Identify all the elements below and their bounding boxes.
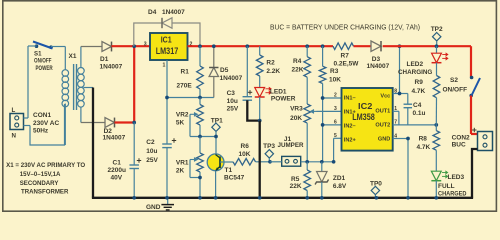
wire: [24, 117, 29, 119]
svg-text:N: N: [12, 133, 17, 140]
svg-text:R5: R5: [291, 176, 300, 183]
svg-text:LED2: LED2: [407, 61, 424, 68]
wire OUT2: [393, 124, 437, 126]
svg-text:1N4007: 1N4007: [103, 134, 126, 141]
svg-text:D1: D1: [100, 56, 109, 63]
node: [198, 135, 202, 139]
svg-text:1: 1: [163, 63, 166, 69]
svg-text:D3: D3: [372, 56, 381, 63]
svg-text:S1: S1: [34, 50, 42, 57]
wire to pin5: [333, 138, 335, 162]
diode D5: [213, 46, 215, 67]
svg-text:IC1: IC1: [161, 35, 172, 45]
svg-text:2: 2: [334, 93, 337, 99]
svg-text:BC547: BC547: [224, 175, 245, 182]
wire center tap: [84, 87, 94, 89]
node: [332, 160, 336, 164]
wire ADJ: [166, 60, 168, 144]
wire: [470, 96, 472, 135]
svg-text:0.1u: 0.1u: [413, 110, 426, 117]
zener ZD1: [321, 162, 323, 172]
node: [198, 176, 202, 180]
node: [321, 44, 325, 48]
wire black to ground: [259, 121, 261, 198]
node: [214, 196, 218, 200]
svg-text:JUMPER: JUMPER: [278, 142, 304, 149]
svg-text:SECONDARY: SECONDARY: [20, 180, 59, 187]
node: [212, 44, 216, 48]
wire GND pin4: [393, 138, 408, 140]
wire: [190, 136, 216, 138]
svg-text:230V AC: 230V AC: [33, 120, 59, 127]
svg-text:BUC: BUC: [452, 142, 466, 149]
svg-text:R6: R6: [241, 143, 250, 150]
svg-text:5K: 5K: [176, 120, 185, 127]
connector CON1: [10, 114, 24, 130]
wire: [323, 124, 342, 126]
resistor R5: [306, 162, 308, 170]
wire Vcc: [393, 93, 400, 95]
svg-text:CON2: CON2: [452, 134, 470, 141]
node: [268, 160, 272, 164]
node: [321, 123, 325, 127]
node: [198, 44, 202, 48]
node: [434, 123, 438, 127]
capacitor C3: [246, 46, 248, 96]
diode D2: [105, 118, 115, 128]
svg-text:C3: C3: [227, 90, 236, 97]
svg-text:CHARGED: CHARGED: [438, 190, 467, 197]
svg-text:C2: C2: [146, 139, 155, 146]
svg-text:6.8V: 6.8V: [333, 183, 347, 190]
node: [375, 196, 379, 200]
node: [406, 196, 410, 200]
svg-text:D4: D4: [148, 9, 157, 16]
svg-text:C4: C4: [413, 102, 422, 109]
svg-text:1N4007: 1N4007: [100, 64, 123, 71]
node: [258, 196, 262, 200]
svg-text:6: 6: [334, 120, 337, 126]
svg-text:22K: 22K: [290, 183, 302, 190]
wire: [28, 45, 37, 47]
LED LED3: [435, 150, 437, 171]
wire: [133, 46, 135, 122]
svg-text:C1: C1: [113, 160, 122, 167]
potentiometer VR1: [199, 137, 201, 154]
wire: [112, 45, 151, 47]
svg-text:L: L: [12, 107, 16, 114]
svg-text:LED3: LED3: [448, 174, 465, 181]
jumper J1: [282, 156, 301, 166]
svg-text:X1: X1: [69, 53, 77, 60]
svg-text:BUC = BATTERY UNDER CHARGING (: BUC = BATTERY UNDER CHARGING (12V, 7Ah): [270, 23, 420, 32]
svg-text:5: 5: [334, 133, 337, 139]
wire: [51, 46, 65, 48]
wire: [24, 125, 31, 127]
ground rail: [92, 197, 473, 199]
svg-text:15V–0–15V,1A: 15V–0–15V,1A: [20, 171, 61, 178]
svg-text:2.2K: 2.2K: [266, 68, 280, 75]
wire: [472, 149, 478, 198]
node: [305, 196, 309, 200]
svg-text:IC2: IC2: [358, 101, 373, 111]
svg-text:VR3: VR3: [290, 106, 303, 113]
svg-text:FULL: FULL: [438, 183, 455, 190]
resistor R2: [259, 46, 261, 55]
wire: [80, 47, 82, 68]
capacitor C2: [162, 143, 172, 145]
svg-text:IN2+: IN2+: [344, 138, 357, 144]
connector CON2: [478, 132, 493, 151]
svg-text:R8: R8: [419, 135, 428, 142]
switch S1: [35, 44, 39, 48]
switch S2: [470, 76, 474, 80]
resistor R4: [306, 46, 308, 57]
node: [406, 137, 410, 141]
svg-text:S2: S2: [450, 77, 458, 84]
wire: [470, 46, 472, 77]
node: [434, 196, 438, 200]
svg-text:10u: 10u: [227, 98, 238, 105]
capacitor C1: [133, 123, 135, 166]
svg-text:CON1: CON1: [33, 112, 51, 119]
svg-text:270E: 270E: [177, 83, 193, 90]
svg-text:2K: 2K: [176, 167, 185, 174]
svg-text:R1: R1: [181, 69, 190, 76]
svg-text:T1: T1: [225, 167, 233, 174]
node: [398, 92, 402, 96]
op-amp U2 IC2 LM358: [342, 88, 393, 151]
svg-text:10K: 10K: [329, 76, 341, 83]
wire: [115, 121, 135, 123]
svg-text:1N4007: 1N4007: [162, 9, 185, 16]
node: [435, 44, 439, 48]
svg-text:3: 3: [334, 106, 337, 112]
svg-text:OUT2: OUT2: [375, 123, 390, 129]
svg-text:Vcc: Vcc: [380, 94, 390, 100]
capacitor C4: [404, 103, 413, 105]
node: [398, 44, 402, 48]
node: [214, 135, 218, 139]
svg-text:40V: 40V: [111, 175, 123, 182]
svg-text:4.7K: 4.7K: [417, 144, 431, 151]
resistor R8: [435, 125, 437, 131]
node: [132, 121, 136, 125]
svg-text:R2: R2: [266, 59, 275, 66]
transistor T1 BC547: [207, 154, 224, 171]
svg-text:2200u: 2200u: [108, 167, 126, 174]
svg-text:10u: 10u: [146, 148, 157, 155]
svg-text:LED1: LED1: [270, 88, 287, 95]
node: [320, 196, 324, 200]
resistor R7: [333, 43, 354, 50]
svg-text:TRANSFORMER: TRANSFORMER: [21, 188, 69, 195]
diode D3: [371, 41, 381, 51]
potentiometer VR2: [199, 98, 201, 105]
svg-text:ZD1: ZD1: [333, 175, 346, 182]
svg-text:OUT1: OUT1: [375, 109, 390, 115]
svg-text:POWER: POWER: [36, 65, 54, 72]
svg-text:X1 = 230V AC PRIMARY TO: X1 = 230V AC PRIMARY TO: [6, 162, 85, 169]
resistor R6: [233, 159, 256, 166]
wire: [383, 45, 471, 47]
potentiometer VR3: [304, 104, 311, 123]
node: [198, 96, 202, 100]
node: [245, 44, 249, 48]
wire output rail: [188, 45, 334, 47]
svg-text:POWER: POWER: [271, 96, 296, 103]
node: [320, 160, 324, 164]
svg-text:3: 3: [144, 41, 147, 47]
node: [305, 160, 309, 164]
svg-text:1N4007: 1N4007: [220, 75, 243, 82]
svg-text:R7: R7: [341, 52, 350, 59]
node: [165, 96, 169, 100]
svg-text:R9: R9: [415, 79, 424, 86]
node: [132, 196, 136, 200]
svg-text:ON/OFF: ON/OFF: [443, 86, 468, 93]
svg-text:20K: 20K: [290, 115, 302, 122]
svg-text:R4: R4: [293, 58, 302, 65]
svg-text:CHARGING: CHARGING: [398, 69, 432, 76]
svg-text:1N4007: 1N4007: [367, 63, 390, 70]
resistor R3: [322, 46, 324, 66]
wire secondary bottom: [80, 107, 82, 123]
regulator IC1 LM317: [150, 33, 188, 60]
wire OUT1: [393, 110, 399, 112]
svg-text:25V: 25V: [227, 106, 239, 113]
diode D4: [134, 23, 162, 46]
svg-text:IN1+: IN1+: [344, 110, 357, 116]
node: [165, 196, 169, 200]
svg-text:25V: 25V: [146, 157, 158, 164]
svg-text:10K: 10K: [239, 151, 251, 158]
svg-text:VR1: VR1: [176, 159, 189, 166]
wire: [301, 161, 334, 163]
svg-text:50Hz: 50Hz: [33, 128, 49, 135]
svg-text:22K: 22K: [292, 67, 304, 74]
node: [321, 96, 325, 100]
node: [305, 44, 309, 48]
node: [132, 44, 136, 48]
wire: [354, 45, 372, 47]
LED LED2: [436, 46, 438, 53]
node: [198, 196, 202, 200]
svg-text:VR2: VR2: [176, 111, 189, 118]
node: [258, 119, 262, 123]
svg-text:GND: GND: [146, 204, 161, 211]
wire: [323, 97, 342, 99]
resistor R9: [436, 63, 438, 76]
svg-text:IN1–: IN1–: [344, 96, 356, 102]
wire center tap to ground: [92, 88, 94, 198]
resistor R1: [199, 46, 201, 66]
svg-text:IN2–: IN2–: [344, 124, 356, 130]
diode D1: [102, 42, 112, 52]
svg-text:LM317: LM317: [156, 46, 179, 56]
svg-text:D5: D5: [220, 67, 229, 74]
svg-text:GND: GND: [378, 137, 390, 143]
svg-text:R3: R3: [330, 68, 339, 75]
LED LED1: [255, 88, 265, 98]
svg-text:ON/OFF: ON/OFF: [34, 58, 52, 65]
svg-text:0.2E,5W: 0.2E,5W: [334, 61, 360, 68]
svg-text:4.7K: 4.7K: [412, 88, 426, 95]
